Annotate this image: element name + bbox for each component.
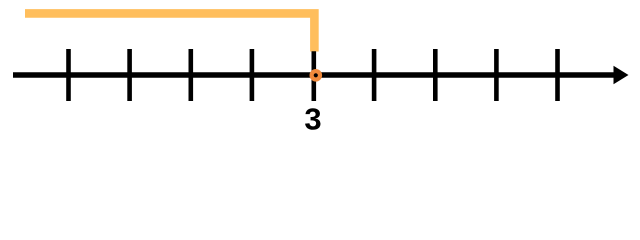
node tick 7 [433,49,438,101]
node tick 9 [555,49,560,101]
wire number line axis [13,72,617,78]
node tick 5 (at 3) [311,51,316,101]
node arrowhead [614,66,629,84]
svg-text:3: 3 [304,102,321,133]
node tick 8 [494,49,499,101]
wire orange bracket (segment from left edge down to point at 3) [25,13,314,51]
node tick 1 [66,49,71,101]
node tick 2 [127,49,132,101]
node tick 4 [250,49,255,101]
node tick 3 [189,49,194,101]
node open point at 3 [312,71,320,79]
node tick 6 [372,49,377,101]
node point fill at 3 [313,72,319,78]
